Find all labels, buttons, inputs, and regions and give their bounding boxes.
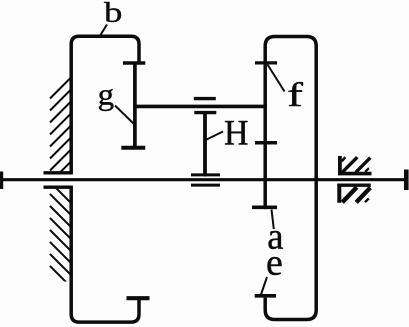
right bearing lower block: [337, 184, 371, 203]
gear f upper tooth tick: [255, 61, 277, 64]
label H: [225, 121, 248, 145]
carrier H vertical link: [203, 113, 207, 177]
internal gear b housing (C-bracket lower part): [71, 187, 139, 322]
frame hatching upper band: [50, 78, 71, 183]
label a: [269, 231, 284, 249]
label e: [268, 257, 282, 275]
label f: [289, 82, 304, 106]
right bearing upper block: [338, 156, 372, 175]
carrier H bearing bar below arm: [194, 111, 216, 114]
shaft left end tick: [0, 172, 3, 190]
leader line to label f: [268, 65, 285, 92]
carrier H hub bar below shaft: [191, 184, 220, 187]
label g: [99, 89, 114, 111]
carrier H bearing bar above arm: [194, 97, 216, 100]
shaft centerline: [2, 178, 408, 181]
leader line to label H: [205, 132, 224, 141]
internal gear b upper flange at shaft hole: [44, 171, 73, 174]
internal gear b lower flange at shaft hole: [44, 185, 73, 188]
internal gear b bottom tooth bar: [127, 296, 150, 300]
carrier H hub bar above shaft: [191, 173, 220, 176]
gear b / gear g mesh tooth bar: [123, 61, 145, 64]
label b: [104, 2, 121, 22]
planet gear g bottom tooth bar: [121, 146, 145, 150]
gear e tooth bar: [255, 294, 276, 298]
shaft right end tick: [404, 170, 409, 191]
leader line to label e: [261, 277, 267, 295]
leader line to label a: [272, 210, 274, 230]
leader line to label g: [115, 106, 134, 124]
leader line to label b: [100, 25, 108, 37]
frame hatching lower band: [50, 182, 71, 287]
internal gear b housing (C-bracket upper part): [71, 36, 139, 173]
planet gear g body line: [133, 65, 137, 147]
gear f lower tooth tick: [255, 141, 277, 145]
compound gear block f-a-e rounded outline: [265, 37, 316, 320]
carrier H arm: [133, 105, 267, 109]
gear a tooth bar: [252, 206, 277, 210]
